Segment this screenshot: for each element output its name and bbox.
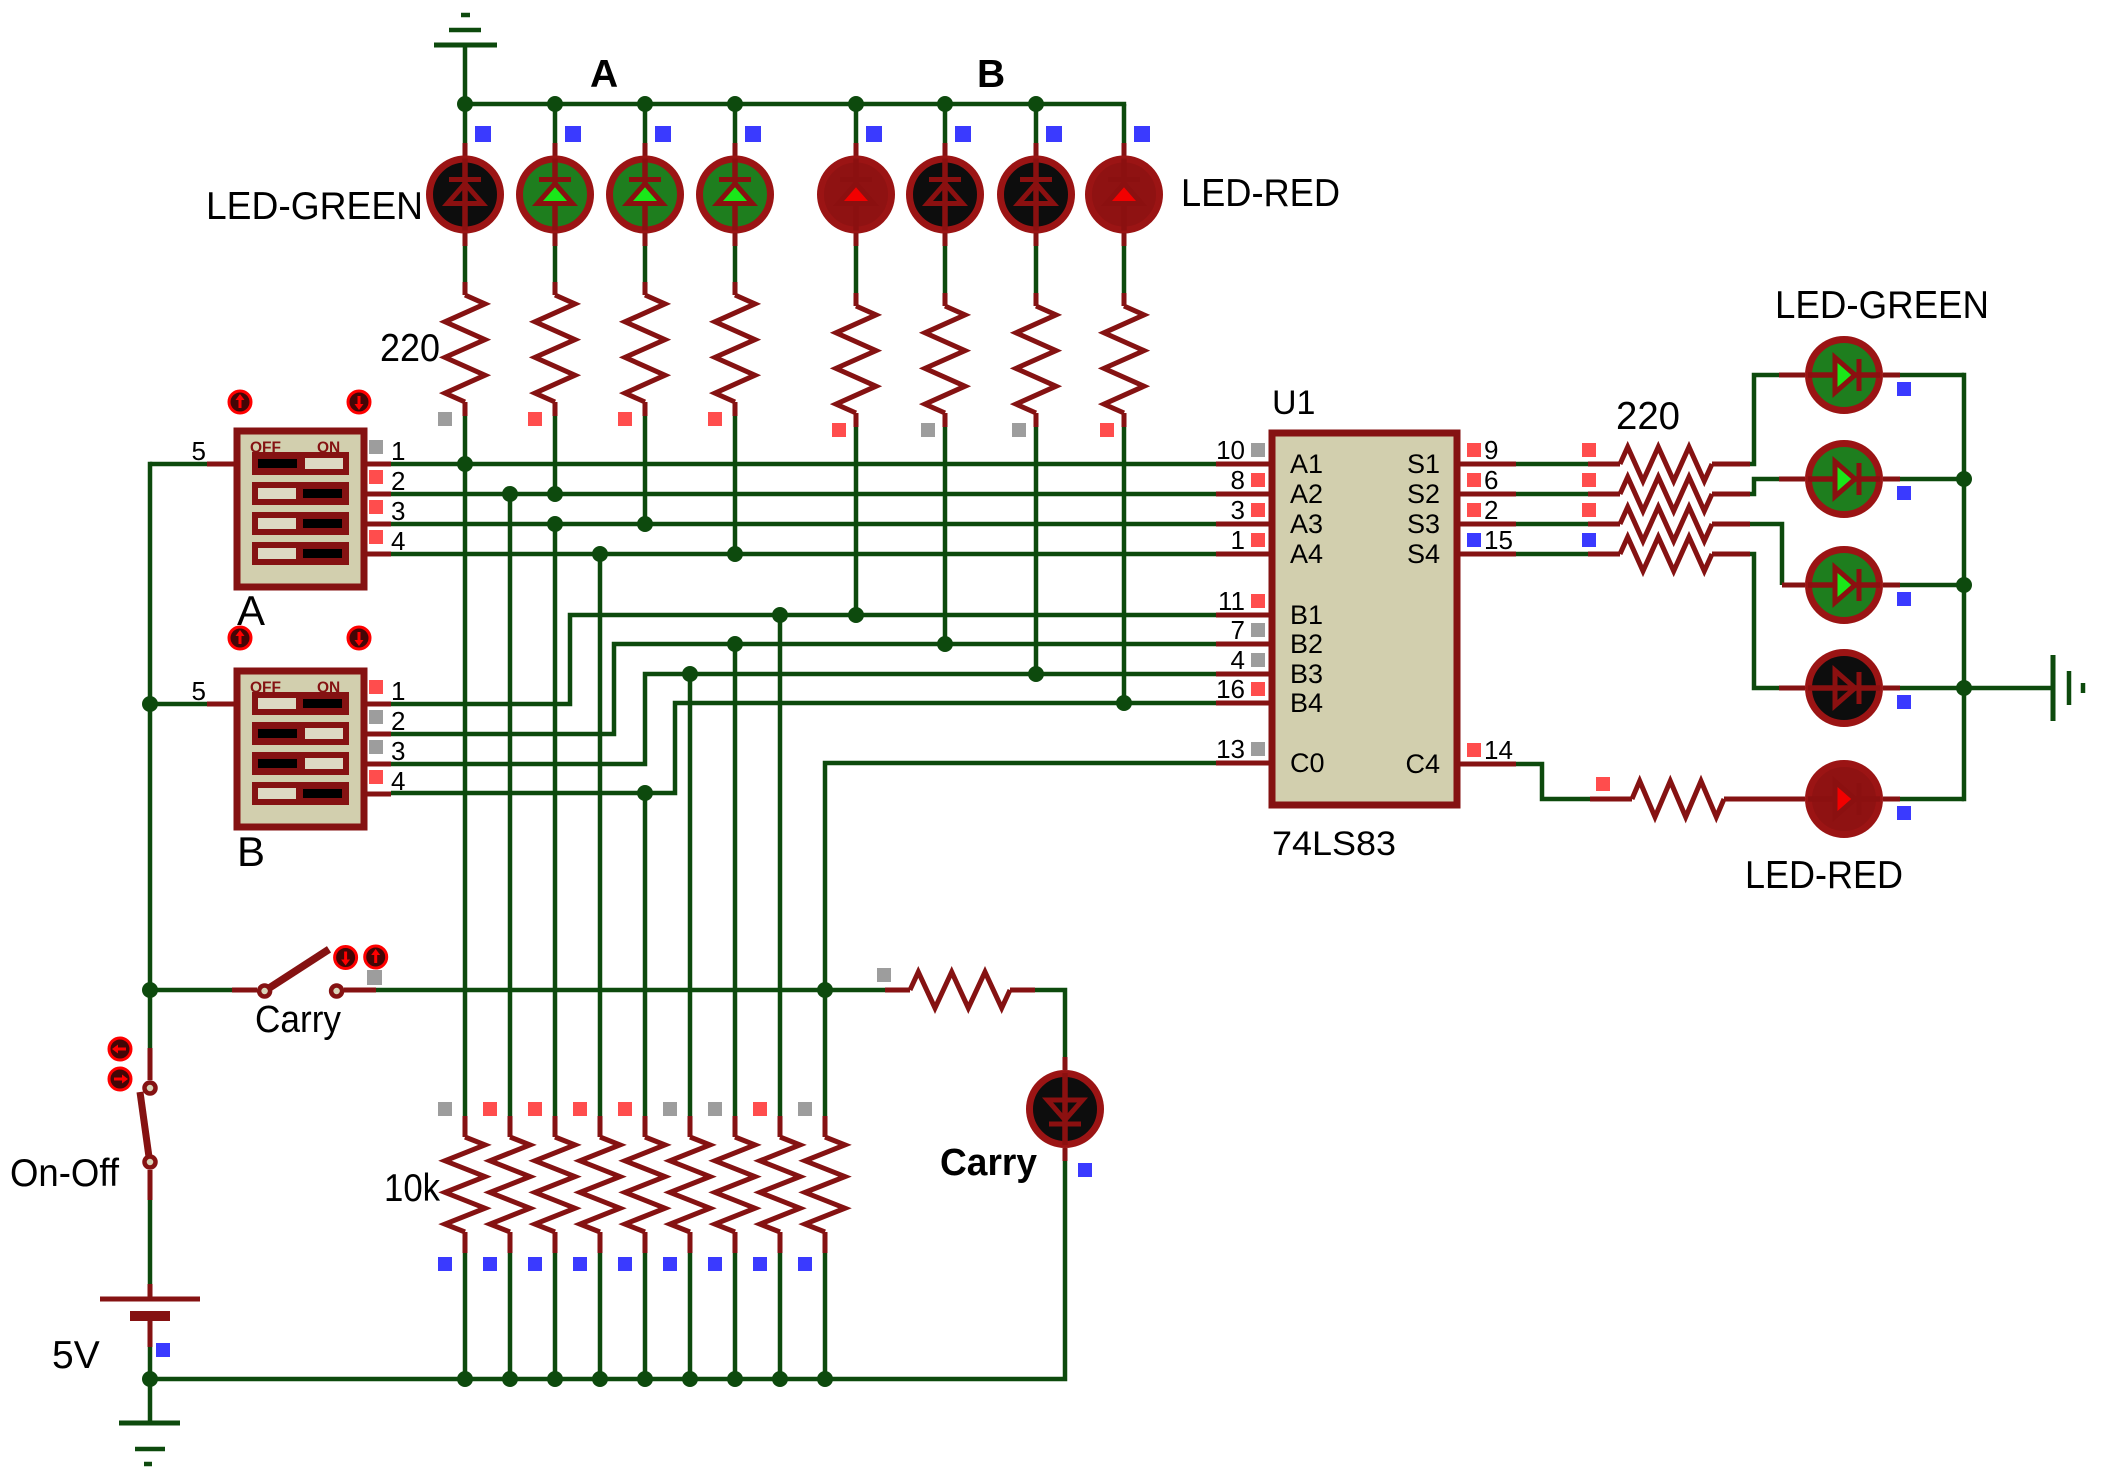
wire 10k R8 to ground rail (778, 1253, 783, 1379)
U1 pin 13 (C0) (1216, 734, 1325, 778)
svg-text:B: B (237, 828, 265, 875)
svg-text:2: 2 (1484, 495, 1498, 525)
logic-state square LED D9 (blue) (1897, 382, 1911, 396)
logic-state square chain 7 (1012, 423, 1026, 437)
DIP B pin 3 (364, 736, 405, 766)
wire net B3 (DIP B pin3 to chip B3) (391, 674, 1216, 764)
wire net A1 row (391, 462, 1216, 467)
junction node (645,104) (637, 96, 653, 112)
junction node (690,674) (682, 666, 698, 682)
junction node (825,1379) (817, 1371, 833, 1387)
svg-text:1: 1 (391, 436, 405, 466)
wire pulldown net vertical x555 (553, 524, 558, 1116)
svg-text:1: 1 (391, 676, 405, 706)
svg-text:5V: 5V (52, 1334, 100, 1377)
logic-state square 10k R8 bottom (blue) (753, 1257, 767, 1271)
junction node (945,104) (937, 96, 953, 112)
resistor 220 chain 4 (715, 282, 755, 416)
svg-text:3: 3 (391, 736, 405, 766)
wire LED D10 to bus (1883, 477, 1964, 482)
node logic-state square (blue) chain 7 (1046, 126, 1062, 142)
junction node (1964,479) (1956, 471, 1972, 487)
logic-state square S3 resistor (1582, 503, 1596, 517)
wire net B4 (DIP B pin4 to chip B4) (391, 703, 1216, 793)
wire right LED common bus (1962, 373, 1967, 801)
wire LED D13 to bus (1883, 797, 1964, 802)
U1 pin 9 (S1) (1407, 435, 1516, 479)
wire pulldown net vertical x735 (733, 644, 738, 1116)
wire LED D12 to bus (1883, 686, 1964, 691)
LED D14 Carry (dark) (1030, 1073, 1101, 1145)
LED D12 (LED-GREEN, dark) (1779, 686, 1805, 691)
logic-state square LED D11 (blue) (1897, 592, 1911, 606)
actuator button Carry up (365, 946, 387, 968)
wire pulldown net vertical x465 (463, 464, 468, 1116)
wire bus to LED D1 (463, 104, 468, 156)
LED D4 (LED-GREEN, green) (700, 159, 771, 231)
svg-text:B1: B1 (1290, 600, 1323, 630)
logic-state square chain 1 (438, 412, 452, 426)
LED D10 (LED-GREEN, green) (1779, 477, 1805, 482)
wire 10k R1 to ground rail (463, 1253, 468, 1379)
wire bus to LED D5 (854, 104, 859, 156)
wire LED D3 to resistor (643, 233, 648, 282)
svg-text:2: 2 (391, 706, 405, 736)
wire S2 to LED D10 (1750, 479, 1779, 494)
junction node (735,104) (727, 96, 743, 112)
svg-text:9: 9 (1484, 435, 1498, 465)
wire 10k R2 to ground rail (508, 1253, 513, 1379)
junction node (825,990) (817, 982, 833, 998)
logic-state square chain 3 (618, 412, 632, 426)
svg-text:A2: A2 (1290, 479, 1323, 509)
actuator button DIP A up (229, 391, 251, 413)
resistor 10k R3 (535, 1116, 575, 1253)
junction node (645,793) (637, 785, 653, 801)
wire S3 to resistor (1516, 522, 1588, 527)
svg-text:11: 11 (1218, 586, 1245, 616)
svg-text:A4: A4 (1290, 539, 1323, 569)
LED D5 (LED-RED, red) (821, 159, 892, 231)
logic-state square 10k R7 top (708, 1102, 722, 1116)
logic-state square C4 resistor (1596, 777, 1610, 791)
node logic-state square (blue) chain 4 (745, 126, 761, 142)
actuator button Carry down (335, 947, 357, 969)
wire net B2 (DIP B pin2 to chip B2) (391, 644, 1216, 734)
resistor 10k R8 (760, 1116, 800, 1253)
resistor 220 S3 (1588, 507, 1750, 541)
wire net B1 (DIP B pin1 to chip B1) (391, 615, 1216, 704)
DIP B pin 4 (364, 766, 405, 796)
logic-state square LED D14 (blue) (1078, 1163, 1092, 1177)
logic-state square carry resistor (877, 968, 891, 982)
logic-state square 10k R2 top (483, 1102, 497, 1116)
wire S2 to resistor (1516, 492, 1588, 497)
wire bus to right ground (1964, 686, 2053, 691)
svg-text:S1: S1 (1407, 449, 1440, 479)
junction node (150,704) (142, 696, 158, 712)
IC U1 74LS83 body (1272, 433, 1457, 805)
svg-text:16: 16 (1216, 674, 1245, 704)
U1 pin 4 (B3) (1216, 645, 1323, 689)
wire DIP A pin5 to rail (150, 462, 207, 467)
wire LED D5 to resistor (854, 233, 859, 293)
svg-text:3: 3 (1231, 495, 1245, 525)
junction node (856,615) (848, 607, 864, 623)
svg-text:B2: B2 (1290, 629, 1323, 659)
U1 pin 16 (B4) (1216, 674, 1323, 718)
svg-text:LED-GREEN: LED-GREEN (206, 185, 423, 228)
resistor 10k R7 (715, 1116, 755, 1253)
svg-text:S3: S3 (1407, 509, 1440, 539)
wire resistor chain 8 down to row (1122, 427, 1127, 703)
resistor 10k R6 (670, 1116, 710, 1253)
junction node (555,104) (547, 96, 563, 112)
DIP A pin 1 (364, 436, 405, 466)
junction node (555,1379) (547, 1371, 563, 1387)
U1 pin 3 (A3) (1216, 495, 1323, 539)
resistor 220 S1 (1588, 447, 1750, 481)
svg-text:220: 220 (1616, 395, 1680, 438)
svg-text:LED-RED: LED-RED (1181, 172, 1340, 215)
svg-text:10k: 10k (384, 1167, 440, 1210)
wire resistor chain 4 down to row (733, 416, 738, 554)
actuator button On-Off right (109, 1068, 131, 1090)
svg-text:8: 8 (1231, 465, 1245, 495)
wire 10k R3 to ground rail (553, 1253, 558, 1379)
LED D13 (LED-RED, red) (1724, 797, 1805, 802)
wire DIP B pin5 to rail (150, 702, 207, 707)
logic-state square LED D13 (blue) (1897, 806, 1911, 820)
junction node (1964,585) (1956, 577, 1972, 593)
U1 pin 1 (A4) (1216, 525, 1323, 569)
svg-text:13: 13 (1216, 734, 1245, 764)
wire net C0 row (825, 763, 1216, 1116)
wire net A2 row (391, 492, 1216, 497)
wire LED D6 to resistor (943, 233, 948, 293)
U1 pin 6 (S2) (1407, 465, 1516, 509)
junction node (645,1379) (637, 1371, 653, 1387)
wire 10k R6 to ground rail (688, 1253, 693, 1379)
logic-state square 10k R8 top (753, 1102, 767, 1116)
junction node (780,615) (772, 607, 788, 623)
wire pulldown net vertical x780 (778, 615, 783, 1116)
resistor 220 chain 6 (925, 293, 965, 427)
svg-text:6: 6 (1484, 465, 1498, 495)
resistor 220 chain 7 (1016, 293, 1056, 427)
wire bus to LED D3 (643, 104, 648, 156)
junction node (150,1379) (142, 1371, 158, 1387)
wire S3 to LED D11 (1750, 524, 1782, 585)
svg-text:1: 1 (1231, 525, 1245, 555)
wire S1 to resistor (1516, 462, 1588, 467)
junction node (735,1379) (727, 1371, 743, 1387)
logic-state square 10k R5 top (618, 1102, 632, 1116)
svg-text:C4: C4 (1405, 749, 1440, 779)
U1 pin 15 (S4) (1407, 525, 1516, 569)
wire bus to LED D2 (553, 104, 558, 156)
LED D8 (LED-RED, red) (1089, 159, 1160, 231)
junction node (555,524) (547, 516, 563, 532)
svg-text:B3: B3 (1290, 659, 1323, 689)
logic-state square 10k R3 bottom (blue) (528, 1257, 542, 1271)
svg-text:4: 4 (391, 766, 405, 796)
DIP A pin 4 (364, 526, 405, 556)
U1 pin 2 (S3) (1407, 495, 1516, 539)
logic-state square S2 resistor (1582, 473, 1596, 487)
U1 pin 8 (A2) (1216, 465, 1323, 509)
wire Carry switch to resistor (344, 988, 885, 993)
ground symbol bottom (119, 1379, 180, 1464)
logic-state square 10k R6 bottom (blue) (663, 1257, 677, 1271)
LED D9 (LED-GREEN, green) (1779, 373, 1805, 378)
DIP A pin 5 (192, 436, 237, 466)
svg-text:3: 3 (391, 496, 405, 526)
junction node (150,990) (142, 982, 158, 998)
wire pulldown net vertical x645 (643, 793, 648, 1116)
logic-state square 10k R9 bottom (blue) (798, 1257, 812, 1271)
wire 10k R5 to ground rail (643, 1253, 648, 1379)
junction node (1036,104) (1028, 96, 1044, 112)
LED D6 (LED-RED, dark) (910, 159, 981, 231)
battery BAT1 5V (100, 1284, 200, 1347)
logic-state square LED D12 (blue) (1897, 695, 1911, 709)
wire LED D14 to ground rail (1063, 1148, 1068, 1161)
logic-state square LED D10 (blue) (1897, 486, 1911, 500)
wire left supply rail (148, 462, 153, 1048)
logic-state square 10k R9 top (798, 1102, 812, 1116)
wire resistor chain 3 down to row (643, 416, 648, 524)
wire resistor chain 6 down to row (943, 427, 948, 644)
svg-text:LED-GREEN: LED-GREEN (1775, 284, 1989, 327)
junction node (856,104) (848, 96, 864, 112)
logic-state square S1 resistor (1582, 443, 1596, 457)
junction node (1964,688) (1956, 680, 1972, 696)
svg-text:220: 220 (380, 327, 440, 370)
wire LED D9 to bus (1883, 373, 1964, 378)
resistor 220 S2 (1588, 477, 1750, 511)
svg-text:On-Off: On-Off (10, 1152, 119, 1195)
wire net A3 row (391, 522, 1216, 527)
wire LED D8 to resistor (1122, 233, 1127, 293)
svg-text:B4: B4 (1290, 688, 1323, 718)
resistor 220 chain 5 (836, 293, 876, 427)
wire bottom ground rail (150, 1161, 1065, 1379)
svg-text:4: 4 (1231, 645, 1245, 675)
junction node (555,494) (547, 486, 563, 502)
logic-state square chain 6 (921, 423, 935, 437)
junction node (465,464) (457, 456, 473, 472)
svg-text:2: 2 (391, 466, 405, 496)
junction node (945,644) (937, 636, 953, 652)
logic-state square 10k R1 bottom (blue) (438, 1257, 452, 1271)
logic-state square battery (blue) (156, 1343, 170, 1357)
resistor 10k R2 (490, 1116, 530, 1253)
wire LED D2 to resistor (553, 233, 558, 282)
wire C4 to resistor (1516, 764, 1590, 799)
wire LED D1 to resistor (463, 233, 468, 282)
wire LED D4 to resistor (733, 233, 738, 282)
LED D1 (LED-GREEN, dark) (430, 159, 501, 231)
junction node (690,1379) (682, 1371, 698, 1387)
wire rail to Carry switch (150, 988, 257, 993)
wire S4 to LED D12 (1750, 554, 1779, 688)
svg-text:S4: S4 (1407, 539, 1440, 569)
wire bus to LED D6 (943, 104, 948, 156)
logic-state square chain 2 (528, 412, 542, 426)
logic-state square 10k R6 top (663, 1102, 677, 1116)
DIP switch A body (237, 431, 364, 587)
junction node (465,1379) (457, 1371, 473, 1387)
wire resistor chain 2 down to row (553, 416, 558, 494)
svg-text:7: 7 (1231, 615, 1245, 645)
junction node (510,1379) (502, 1371, 518, 1387)
actuator button On-Off left (109, 1038, 131, 1060)
wire bus to LED D4 (733, 104, 738, 156)
U1 pin 11 (B1) (1216, 586, 1323, 630)
svg-text:14: 14 (1484, 735, 1513, 765)
wire resistor chain 7 down to row (1034, 427, 1039, 674)
wire resistor chain 1 down to row (463, 416, 468, 464)
switch On-Off (140, 1048, 156, 1200)
logic-state square chain 4 (708, 412, 722, 426)
junction node (645,524) (637, 516, 653, 532)
logic-state square 10k R2 bottom (blue) (483, 1257, 497, 1271)
wire 10k R4 to ground rail (598, 1253, 603, 1379)
svg-text:B: B (977, 53, 1005, 96)
logic-state square 10k R5 bottom (blue) (618, 1257, 632, 1271)
junction node (780,1379) (772, 1371, 788, 1387)
wire carry resistor to LED D14 (1035, 990, 1065, 1070)
node logic-state square (blue) chain 2 (565, 126, 581, 142)
resistor 220 chain 1 (445, 282, 485, 416)
actuator button DIP A down (348, 391, 370, 413)
DIP switch B body (237, 671, 364, 827)
svg-text:74LS83: 74LS83 (1272, 825, 1396, 863)
wire 10k R9 to ground rail (823, 1253, 828, 1379)
wire S4 to resistor (1516, 552, 1588, 557)
wire bus to LED D8 (1122, 104, 1127, 156)
resistor 220 chain 2 (535, 282, 575, 416)
U1 pin 10 (A1) (1216, 435, 1323, 479)
U1 pin 14 (C4) (1405, 735, 1516, 779)
node logic-state square (blue) chain 1 (475, 126, 491, 142)
logic-state square 10k R4 top (573, 1102, 587, 1116)
junction node (510,494) (502, 486, 518, 502)
DIP A pin 2 (364, 466, 405, 496)
LED D7 (LED-RED, dark) (1001, 159, 1072, 231)
resistor 10k R4 (580, 1116, 620, 1253)
LED D2 (LED-GREEN, green) (520, 159, 591, 231)
svg-text:U1: U1 (1272, 384, 1315, 422)
svg-text:10: 10 (1216, 435, 1245, 465)
resistor 220 chain 3 (625, 282, 665, 416)
wire net A4 row (391, 552, 1216, 557)
wire 10k R7 to ground rail (733, 1253, 738, 1379)
U1 pin 7 (B2) (1216, 615, 1323, 659)
svg-text:LED-RED: LED-RED (1745, 854, 1903, 897)
node logic-state square (blue) chain 5 (866, 126, 882, 142)
resistor 10k R1 (445, 1116, 485, 1253)
wire pulldown net vertical x690 (688, 674, 693, 1116)
wire LED D7 to resistor (1034, 233, 1039, 293)
wire switch to battery (148, 1200, 153, 1284)
svg-text:5: 5 (192, 676, 206, 706)
logic-state square chain 5 (832, 423, 846, 437)
logic-state square Carry switch (367, 970, 382, 985)
DIP A pin 3 (364, 496, 405, 526)
wire bus to LED D7 (1034, 104, 1039, 156)
junction node (600,1379) (592, 1371, 608, 1387)
junction node (1036,674) (1028, 666, 1044, 682)
svg-text:A3: A3 (1290, 509, 1323, 539)
resistor 220 C4 (1590, 781, 1724, 817)
svg-text:4: 4 (391, 526, 405, 556)
ground symbol right (2053, 655, 2083, 721)
node logic-state square (blue) chain 8 (1134, 126, 1150, 142)
logic-state square 10k R4 bottom (blue) (573, 1257, 587, 1271)
resistor 10k R5 (625, 1116, 665, 1253)
logic-state square 10k R1 top (438, 1102, 452, 1116)
svg-text:Carry: Carry (255, 999, 341, 1041)
LED D11 (LED-GREEN, green) (1782, 583, 1805, 588)
wire pulldown net vertical x510 (508, 494, 513, 1116)
junction node (735,554) (727, 546, 743, 562)
actuator button DIP B up (229, 627, 251, 649)
wire pulldown net vertical x600 (598, 554, 603, 1116)
logic-state square 10k R3 top (528, 1102, 542, 1116)
DIP B pin 2 (364, 706, 405, 736)
svg-text:15: 15 (1484, 525, 1513, 555)
logic-state square 10k R7 bottom (blue) (708, 1257, 722, 1271)
svg-text:Carry: Carry (940, 1142, 1037, 1184)
resistor carry 1k (885, 972, 1035, 1008)
switch Carry (259, 949, 342, 996)
svg-text:S2: S2 (1407, 479, 1440, 509)
node logic-state square (blue) chain 6 (955, 126, 971, 142)
wire resistor chain 5 down to row (854, 427, 859, 615)
svg-text:C0: C0 (1290, 748, 1325, 778)
DIP B pin 1 (364, 676, 405, 706)
svg-text:5: 5 (192, 436, 206, 466)
wire battery to ground rail (148, 1347, 153, 1379)
resistor 220 chain 8 (1104, 293, 1144, 427)
junction node (465,104) (457, 96, 473, 112)
svg-text:A1: A1 (1290, 449, 1323, 479)
ground symbol top (power rail) (434, 15, 497, 104)
wire LED D11 to bus (1883, 583, 1964, 588)
LED D3 (LED-GREEN, green) (610, 159, 681, 231)
wire S1 to LED D9 (1750, 375, 1779, 464)
junction node (600,554) (592, 546, 608, 562)
DIP B pin 5 (192, 676, 237, 706)
resistor 10k R9 (805, 1116, 845, 1253)
wire top LED bus (465, 102, 1126, 107)
actuator button DIP B down (348, 627, 370, 649)
logic-state square chain 8 (1100, 423, 1114, 437)
junction node (735,644) (727, 636, 743, 652)
logic-state square S4 resistor (1582, 533, 1596, 547)
svg-text:A: A (590, 53, 618, 96)
node logic-state square (blue) chain 3 (655, 126, 671, 142)
resistor 220 S4 (1588, 537, 1750, 571)
junction node (1124,703) (1116, 695, 1132, 711)
